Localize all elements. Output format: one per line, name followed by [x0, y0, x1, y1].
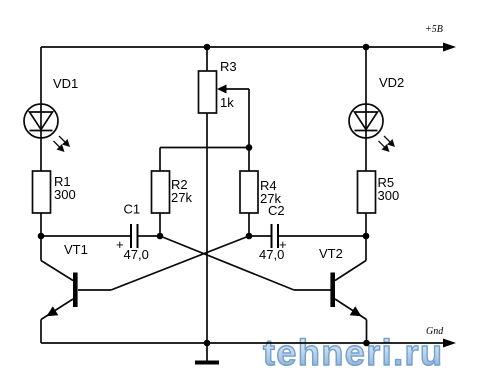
- wire top +5V rail: [41, 46, 448, 48]
- LED VD2 emission arrows: [379, 136, 395, 151]
- svg-text:47,0: 47,0: [259, 247, 284, 262]
- svg-text:VD1: VD1: [53, 76, 78, 91]
- wire C1 to node B: [138, 235, 161, 237]
- wire VT2 base horizontal: [294, 289, 331, 291]
- LED VD1: [24, 104, 58, 138]
- svg-text:+: +: [116, 237, 124, 252]
- junction node A (VT1 collector): [38, 233, 45, 240]
- wire R2 bottom lead: [159, 213, 161, 236]
- svg-text:R3: R3: [220, 59, 237, 74]
- svg-text:tehneri.ru: tehneri.ru: [263, 332, 442, 373]
- wire bias rail horizontal: [160, 147, 249, 149]
- resistor R2: [152, 171, 170, 213]
- junction node D (VT2 collector): [363, 233, 370, 240]
- power arrow +5B: [443, 43, 456, 52]
- svg-text:C2: C2: [268, 203, 285, 218]
- wire R4 top lead: [248, 148, 250, 172]
- wire VT2 collector stub: [365, 236, 367, 261]
- svg-text:47,0: 47,0: [124, 247, 149, 262]
- wire right branch vertical (VD2/R5): [365, 47, 367, 236]
- svg-text:1k: 1k: [220, 95, 234, 110]
- wire node A to C1: [41, 235, 131, 237]
- wire VT1 collector stub: [40, 236, 42, 261]
- wire R4 bottom lead: [248, 213, 250, 236]
- svg-text:VD2: VD2: [379, 75, 404, 90]
- LED VD1 emission arrows: [54, 136, 70, 151]
- wire VT1 base horizontal: [78, 289, 111, 291]
- svg-text:27k: 27k: [171, 190, 192, 205]
- wire VT2 emitter vertical: [366, 320, 368, 344]
- junction node C (R4 bottom): [246, 233, 253, 240]
- wire VT1 emitter diagonal: [41, 299, 73, 320]
- wire cross-couple node B to VT2 base: [160, 236, 294, 290]
- wire cross-couple node C to VT1 base: [111, 236, 249, 290]
- ground arrow Gnd: [443, 339, 456, 348]
- resistor R1: [33, 171, 51, 213]
- wire bottom ground rail: [41, 342, 448, 344]
- wire VT1 emitter vertical: [40, 320, 42, 344]
- LED VD2: [349, 104, 383, 138]
- junction dot wiper/bias: [246, 144, 253, 151]
- wire VT2 emitter diagonal: [335, 299, 367, 320]
- junction dot top R3: [204, 44, 211, 51]
- junction dot top right: [363, 44, 370, 51]
- capacitor C1: [131, 224, 138, 248]
- wire R3 wiper horizontal: [224, 88, 249, 90]
- resistor R5: [358, 171, 376, 213]
- svg-text:300: 300: [54, 187, 76, 202]
- wire wiper vertical drop: [248, 89, 250, 148]
- svg-text:+5В: +5В: [425, 24, 443, 35]
- svg-text:C1: C1: [124, 202, 141, 217]
- wire left branch vertical (VD1/R1): [40, 47, 42, 236]
- wire center vertical R3 to ground: [206, 47, 208, 361]
- wire VT1 collector diagonal: [41, 261, 73, 281]
- junction dot VT2 emitter: [363, 340, 370, 347]
- wire VT2 collector diagonal: [335, 261, 366, 281]
- wire R2 top lead: [159, 148, 161, 172]
- junction dot ground center: [204, 340, 211, 347]
- svg-text:300: 300: [378, 188, 400, 203]
- wire node C to C2: [249, 235, 272, 237]
- svg-text:Gnd: Gnd: [426, 326, 444, 337]
- svg-text:VT2: VT2: [319, 246, 343, 261]
- potentiometer R3: [199, 71, 227, 113]
- transistor VT1: [47, 273, 78, 317]
- transistor VT2: [330, 273, 361, 317]
- ground symbol: [195, 361, 219, 365]
- svg-text:VT1: VT1: [64, 242, 88, 257]
- wire C2 to node D: [278, 235, 366, 237]
- watermark tehneri.ru: [263, 332, 442, 373]
- resistor R4: [240, 171, 258, 213]
- junction node B (R2 bottom): [157, 233, 164, 240]
- capacitor C2: [272, 224, 279, 248]
